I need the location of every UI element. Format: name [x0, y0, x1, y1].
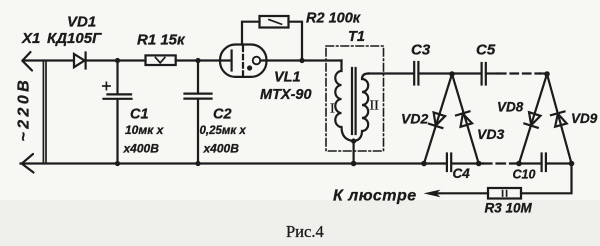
diode VD2 — [429, 112, 446, 128]
svg-text:С3: С3 — [411, 42, 431, 59]
wire: diode leg B to VD8 foot — [519, 74, 547, 164]
transformer T1 dashed box — [326, 46, 384, 151]
connector X1 arrow (top pin) — [22, 52, 32, 71]
svg-text:К люстре: К люстре — [333, 188, 417, 205]
node: VD3 foot — [476, 161, 482, 167]
svg-text:VD3: VD3 — [477, 126, 504, 142]
svg-text:С1: С1 — [130, 107, 149, 123]
capacitor C3 — [413, 62, 415, 85]
wire: R1 to VL1 — [176, 59, 231, 61]
node: T1 centre tap joint — [351, 138, 356, 143]
wire: output node down to R3 — [521, 164, 572, 194]
svg-text:I: I — [330, 102, 335, 117]
svg-text:С5: С5 — [476, 42, 496, 59]
capacitor C1 — [116, 61, 118, 94]
T1 primary winding I — [335, 61, 353, 142]
resistor R3 — [488, 188, 521, 199]
svg-text:R2 100к: R2 100к — [306, 11, 361, 27]
node: C1 bottom junction — [115, 161, 120, 166]
svg-text:VL1: VL1 — [274, 70, 301, 86]
resistor R1 — [146, 55, 176, 65]
svg-text:10мк х: 10мк х — [125, 123, 165, 137]
diode VD8 — [524, 112, 541, 128]
wire dashed: C5 to node B — [486, 72, 497, 74]
svg-text:С10: С10 — [513, 168, 536, 182]
wire: C10 to output corner — [547, 162, 572, 164]
wire: C3 to node A — [419, 72, 453, 74]
resistor R2 — [260, 16, 289, 28]
T1 core — [351, 68, 353, 134]
capacitor C10 — [540, 154, 542, 172]
wire: to C10 — [518, 162, 541, 164]
svg-text:R1 15к: R1 15к — [137, 32, 186, 49]
node: VD2 foot — [421, 161, 427, 167]
wire: R2 left lead to VL1 starter — [242, 22, 260, 45]
svg-text:С2: С2 — [213, 107, 232, 123]
wire: node A to C5 — [453, 72, 482, 74]
wire: bottom rail left section — [21, 162, 447, 164]
diode VD1 — [74, 54, 85, 67]
svg-text:II: II — [370, 99, 380, 114]
node: R2 right lead junction — [299, 58, 304, 63]
capacitor C5 — [481, 63, 483, 85]
connector X1 double line — [42, 61, 44, 164]
svg-text:х400В: х400В — [123, 142, 160, 156]
VL1 cathode circle — [253, 57, 261, 65]
node A — [449, 71, 455, 77]
VL1 gas dot — [247, 65, 252, 70]
svg-text:Т1: Т1 — [348, 29, 365, 45]
wire: R2 right lead down to output wire — [289, 22, 303, 58]
node: C2 top junction — [195, 58, 200, 63]
svg-text:х400В: х400В — [203, 142, 240, 156]
svg-text:~220В: ~220В — [16, 77, 33, 142]
diode VD9 — [551, 111, 568, 126]
neon thyratron VL1 envelope — [220, 45, 267, 77]
connector X1 arrow (bottom pin) — [22, 154, 34, 173]
wire: diode leg B to VD9 foot — [547, 74, 572, 164]
svg-text:КД105Г: КД105Г — [47, 30, 102, 47]
VL1 starter electrode (dashed) — [242, 47, 244, 76]
label ~220V (rotated) — [16, 77, 33, 142]
wire: T1 tap to bottom rail — [353, 141, 355, 164]
svg-text:R3 10М: R3 10М — [485, 201, 533, 216]
wire: VL1 cathode to transformer — [260, 59, 341, 61]
wire: R3 to chandelier arrow — [436, 192, 488, 194]
svg-text:Х1: Х1 — [21, 30, 40, 47]
node: VD9 foot / output node — [569, 161, 575, 167]
node: C2 bottom junction — [195, 161, 200, 166]
svg-text:МТХ-90: МТХ-90 — [260, 87, 312, 103]
node: VD8 foot — [516, 161, 522, 167]
wire: C4 to dashed gap — [452, 162, 483, 164]
node: T1 tap bottom junction — [351, 161, 357, 167]
T1 secondary winding II — [355, 74, 369, 142]
svg-text:VD1: VD1 — [67, 14, 96, 31]
VL1 anode electrode — [231, 51, 233, 71]
C1 polarity plus sign — [103, 85, 110, 87]
capacitor C2 — [197, 61, 199, 94]
wire: top mains wire from plug to VD1 — [23, 59, 74, 61]
svg-text:VD8: VD8 — [497, 100, 524, 115]
svg-text:Рис.4: Рис.4 — [286, 222, 324, 241]
node B — [544, 71, 550, 77]
capacitor C4 — [446, 154, 448, 172]
wire: diode leg A to VD3 foot — [452, 74, 479, 164]
wire dashed: omitted stages bottom — [483, 162, 518, 164]
wire: VD1 to R1 — [86, 59, 146, 61]
svg-text:С4: С4 — [453, 166, 471, 181]
svg-text:0,25мк х: 0,25мк х — [200, 125, 247, 137]
svg-text:VD2: VD2 — [401, 111, 428, 127]
diode VD3 — [456, 111, 473, 127]
wire: diode leg A to VD2 foot — [424, 74, 452, 164]
arrow to chandelier — [424, 190, 441, 198]
svg-text:VD9: VD9 — [571, 111, 598, 126]
node: C1 top junction — [115, 58, 120, 63]
wire: secondary to C3 — [369, 72, 414, 74]
